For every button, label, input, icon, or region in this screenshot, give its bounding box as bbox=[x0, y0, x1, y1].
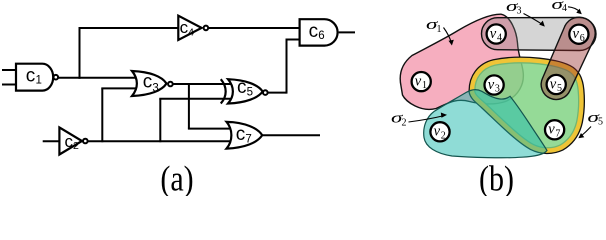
wire c5 lower input horizontal bbox=[159, 98, 232, 100]
not gate c2 bubble bbox=[83, 139, 88, 144]
wire c7 output bbox=[262, 134, 320, 136]
vertex v4 bbox=[487, 24, 506, 43]
label c1 bbox=[26, 65, 42, 86]
hyperedge sigma2 (teal blob v2,v3) bbox=[424, 90, 547, 158]
vertex v2 bbox=[430, 122, 449, 141]
svg-text:3: 3 bbox=[152, 82, 158, 94]
label c6 bbox=[309, 21, 325, 42]
svg-text:5: 5 bbox=[557, 83, 562, 94]
vertex v3 bbox=[485, 75, 504, 94]
svg-text:7: 7 bbox=[555, 128, 560, 139]
svg-text:v: v bbox=[434, 124, 441, 140]
label c2 bbox=[65, 132, 80, 152]
arrow sigma3 bbox=[524, 14, 543, 25]
svg-text:(a): (a) bbox=[160, 159, 193, 196]
wire c6 lower input horizontal bbox=[286, 39, 300, 41]
nand gate c1 bubble bbox=[54, 75, 59, 80]
arrow sigma1 bbox=[444, 28, 452, 44]
nor gate c3 bubble bbox=[168, 82, 173, 87]
vertex v7 bbox=[545, 120, 564, 139]
wire c3 lower input horizontal bbox=[101, 87, 140, 89]
label c4 bbox=[180, 18, 195, 38]
wire riser from c3 output down to c7 top input bbox=[188, 83, 190, 129]
wire riser from c5 output to c6 lower input bbox=[286, 40, 288, 94]
arrow sigma2 bbox=[409, 116, 445, 122]
svg-text:c: c bbox=[143, 71, 153, 92]
svg-text:(b): (b) bbox=[479, 159, 514, 196]
wire c1 output to c3 top input bbox=[58, 77, 140, 79]
wire c4 output to c6 top input bbox=[208, 27, 299, 29]
svg-text:4: 4 bbox=[497, 33, 502, 44]
label c3 bbox=[143, 71, 159, 94]
svg-text:1: 1 bbox=[36, 74, 42, 86]
svg-text:c: c bbox=[26, 65, 36, 86]
svg-text:6: 6 bbox=[580, 33, 585, 44]
arrow sigma5 bbox=[581, 127, 592, 137]
not gate c4 body bbox=[178, 16, 201, 40]
svg-text:v: v bbox=[415, 74, 422, 90]
svg-text:7: 7 bbox=[245, 133, 251, 145]
svg-text:2: 2 bbox=[402, 118, 407, 129]
hyperedge sigma5 outer black outline (green blob v3,v5,v7) bbox=[472, 60, 582, 151]
label sigma3 bbox=[506, 0, 522, 17]
or gate c7 body bbox=[227, 122, 263, 149]
vertex v5 bbox=[547, 75, 566, 94]
hyperedge sigma5 gold band and green fill bbox=[472, 60, 582, 151]
wire c2 output rail to c7 lower input bbox=[88, 140, 236, 142]
hyperedge sigma4 (maroon capsule v6,v5) bbox=[541, 17, 595, 99]
svg-text:v: v bbox=[573, 26, 580, 42]
svg-text:4: 4 bbox=[188, 26, 194, 38]
wire c3 output to c5 top input bbox=[173, 83, 232, 85]
xnor gate c5 bubble bbox=[263, 90, 268, 95]
nand gate c1 body bbox=[16, 64, 53, 91]
xnor gate c5 body bbox=[228, 79, 263, 103]
label c5 bbox=[237, 77, 253, 99]
vertex v6 bbox=[569, 25, 588, 44]
svg-text:1: 1 bbox=[422, 80, 427, 91]
arrow sigma4 bbox=[568, 7, 580, 12]
wire c1 input stub 2 bbox=[2, 84, 17, 86]
not gate c2 body bbox=[59, 127, 82, 154]
svg-text:2: 2 bbox=[73, 140, 79, 152]
wire riser from c1 output to top rail bbox=[79, 28, 81, 79]
wire c6 output bbox=[339, 31, 355, 33]
svg-text:4: 4 bbox=[562, 3, 567, 14]
wire top rail into c4 bbox=[79, 27, 179, 29]
svg-text:v: v bbox=[490, 26, 497, 42]
and gate c6 body bbox=[300, 19, 338, 45]
svg-text:c: c bbox=[309, 21, 319, 42]
label sigma4 bbox=[552, 0, 568, 14]
wire c2 input stub bbox=[43, 140, 60, 142]
label c7 bbox=[236, 124, 252, 145]
hyperedge sigma3 (grey capsule v4,v6) bbox=[482, 18, 597, 51]
svg-text:v: v bbox=[548, 122, 555, 138]
xnor gate c5 input arc bbox=[221, 79, 226, 103]
svg-text:1: 1 bbox=[437, 24, 442, 35]
svg-text:3: 3 bbox=[517, 6, 522, 17]
wire c5 output horizontal bbox=[268, 92, 287, 94]
label sigma2 bbox=[391, 111, 407, 129]
not gate c4 bubble bbox=[204, 26, 209, 31]
svg-text:c: c bbox=[237, 77, 247, 98]
svg-text:v: v bbox=[488, 77, 495, 93]
svg-text:v: v bbox=[550, 76, 557, 92]
wire riser to c5 lower input bbox=[159, 99, 161, 143]
label sigma1 bbox=[426, 17, 442, 35]
wire c1 input stub 1 bbox=[2, 69, 17, 71]
svg-text:6: 6 bbox=[318, 30, 324, 42]
svg-text:c: c bbox=[236, 124, 246, 145]
wire riser to c3 lower input bbox=[101, 88, 103, 142]
hyperedge sigma1 (pink blob v1,v4,v3) bbox=[400, 14, 523, 109]
svg-text:5: 5 bbox=[598, 117, 603, 128]
svg-text:2: 2 bbox=[441, 130, 446, 141]
label sigma5 bbox=[588, 110, 604, 128]
svg-text:5: 5 bbox=[247, 86, 253, 98]
nor gate c3 body bbox=[132, 71, 167, 96]
svg-text:3: 3 bbox=[495, 84, 500, 95]
wire c7 top input horizontal bbox=[188, 128, 236, 130]
vertex v1 bbox=[412, 72, 431, 91]
